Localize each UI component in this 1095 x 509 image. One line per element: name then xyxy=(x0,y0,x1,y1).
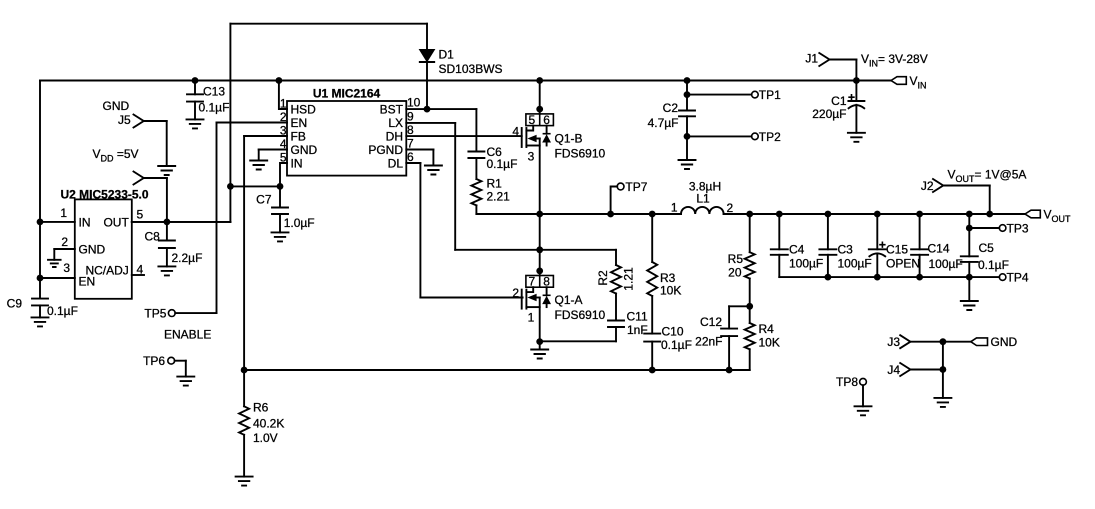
test point TP2 xyxy=(687,130,781,144)
node D1/BST junction xyxy=(424,106,431,113)
label C11 value xyxy=(627,310,648,338)
svg-text:BST: BST xyxy=(380,102,404,116)
node J4 junction xyxy=(940,366,947,373)
label C5 value xyxy=(978,241,1009,272)
svg-text:J3: J3 xyxy=(887,335,900,349)
svg-text:20: 20 xyxy=(728,266,742,280)
node J1/C1 bus junction xyxy=(853,77,860,84)
capacitor C15 (polarized, open) xyxy=(869,214,886,277)
node U1 pin1 bus junction xyxy=(276,77,283,84)
transistor Q1-A xyxy=(512,214,553,342)
svg-text:100µF: 100µF xyxy=(929,257,963,271)
svg-text:J1: J1 xyxy=(805,52,818,66)
label VOUT= 1V@5A xyxy=(948,168,1027,185)
svg-text:1.0V: 1.0V xyxy=(253,431,278,445)
node C12 bus junction xyxy=(726,367,733,374)
svg-text:C9: C9 xyxy=(7,297,23,311)
svg-text:40.2K: 40.2K xyxy=(253,417,284,431)
svg-text:5: 5 xyxy=(528,113,535,127)
svg-text:2: 2 xyxy=(512,286,519,300)
capacitor C12 xyxy=(721,306,750,370)
inductor L1 xyxy=(671,180,734,216)
svg-text:5: 5 xyxy=(137,208,144,222)
svg-text:1: 1 xyxy=(528,311,535,325)
svg-text:GND: GND xyxy=(103,99,130,113)
node C14 bottom junction xyxy=(916,274,923,281)
svg-text:EN: EN xyxy=(291,116,308,130)
resistor R5 xyxy=(745,214,755,306)
svg-text:J4: J4 xyxy=(887,363,900,377)
svg-text:R5: R5 xyxy=(728,252,744,266)
svg-text:D1: D1 xyxy=(439,48,455,62)
svg-text:C10: C10 xyxy=(662,324,684,338)
net tag GND xyxy=(971,335,1018,349)
svg-text:C14: C14 xyxy=(928,242,950,256)
svg-text:TP5: TP5 xyxy=(144,306,166,320)
label VIN= 3V-28V xyxy=(861,52,928,69)
node C2 bus junction xyxy=(684,77,691,84)
svg-text:1: 1 xyxy=(60,206,67,220)
label Q1-A value xyxy=(555,293,606,322)
svg-text:C1: C1 xyxy=(831,94,847,108)
test point TP5 xyxy=(144,123,216,321)
capacitor C7 xyxy=(272,186,289,241)
wire U1 pin2 EN xyxy=(217,122,288,124)
capacitor C14 xyxy=(911,214,928,277)
wire output bus xyxy=(724,213,1025,215)
label C14 value xyxy=(928,242,963,272)
svg-text:R2: R2 xyxy=(596,270,610,286)
svg-text:EN: EN xyxy=(79,275,96,289)
svg-text:OPEN: OPEN xyxy=(886,257,920,271)
node LX/R2 run junction xyxy=(536,246,543,253)
test point TP8 xyxy=(836,375,872,415)
node IN rail junction xyxy=(227,183,234,190)
svg-text:C8: C8 xyxy=(145,230,161,244)
wire 5V vertical rail (U2 OUT to top wire / U1 IN) xyxy=(132,24,231,222)
svg-text:4.7µF: 4.7µF xyxy=(648,116,679,130)
svg-text:6: 6 xyxy=(407,150,414,164)
node R5/R4/C12 junction xyxy=(746,303,753,310)
connector J5 xyxy=(118,113,175,175)
resistor R1 xyxy=(471,179,481,214)
test point TP3 xyxy=(969,221,1029,235)
test point TP1 xyxy=(687,88,781,102)
svg-text:4: 4 xyxy=(512,125,519,139)
node switch node junction xyxy=(536,211,543,218)
node R3 junction xyxy=(649,211,656,218)
wire feedback bus xyxy=(244,369,750,371)
resistor R2 xyxy=(611,250,621,294)
svg-text:8: 8 xyxy=(407,123,414,137)
wire U1 pin4 GND to ground xyxy=(250,150,287,170)
node J3 junction xyxy=(940,338,947,345)
svg-text:IN: IN xyxy=(291,156,303,170)
connector J1 xyxy=(805,52,856,81)
node U2 pin3/rail xyxy=(37,275,44,282)
diode D1 xyxy=(420,24,435,109)
svg-text:R1: R1 xyxy=(487,177,503,191)
capacitor C10 xyxy=(644,296,660,370)
wire U2 pin1 xyxy=(40,221,75,223)
label C9 value xyxy=(7,297,78,319)
wire U1 pin6 DL to Q1-A gate xyxy=(406,163,522,298)
label Q1-B value xyxy=(555,132,606,161)
svg-text:C2: C2 xyxy=(663,101,679,115)
label C2 value xyxy=(648,101,679,130)
node C13/bus junction xyxy=(192,77,199,84)
svg-text:1nF: 1nF xyxy=(627,323,648,337)
svg-text:GND: GND xyxy=(991,335,1018,349)
node C15 bottom junction xyxy=(874,274,881,281)
capacitor C8 xyxy=(158,222,175,276)
svg-text:FB: FB xyxy=(291,129,306,143)
IC U1 MIC2164 xyxy=(280,87,421,176)
svg-text:U1 MIC2164: U1 MIC2164 xyxy=(313,87,381,101)
wire output caps bottom bus xyxy=(779,276,969,278)
svg-text:FDS6910: FDS6910 xyxy=(555,308,606,322)
IC U2 MIC5233-5.0 xyxy=(60,188,149,299)
svg-text:C12: C12 xyxy=(700,315,722,329)
capacitor C3 xyxy=(819,214,836,277)
svg-text:2.21: 2.21 xyxy=(487,190,511,204)
wire left VIN rail to U2 xyxy=(39,81,41,299)
svg-text:7: 7 xyxy=(528,275,535,289)
test point TP4 xyxy=(969,271,1029,285)
transistor Q1-B xyxy=(512,81,553,215)
svg-text:2: 2 xyxy=(61,235,68,249)
svg-text:Q1-A: Q1-A xyxy=(555,293,583,307)
wire U1 pin8 DH to Q1-B gate xyxy=(406,135,521,137)
wire U1 pin10 BST xyxy=(406,108,476,110)
connector J4 xyxy=(887,363,943,377)
wire top 5V-to-BST-diode run xyxy=(230,23,427,25)
node C15 bus junction xyxy=(874,211,881,218)
svg-text:0.1µF: 0.1µF xyxy=(199,101,230,115)
svg-text:C15: C15 xyxy=(886,243,908,257)
svg-text:3: 3 xyxy=(63,261,70,275)
svg-text:0.1µF: 0.1µF xyxy=(661,338,692,352)
svg-text:HSD: HSD xyxy=(291,102,317,116)
capacitor C9 xyxy=(32,299,49,327)
label GND (J5) xyxy=(103,99,130,113)
svg-text:DL: DL xyxy=(388,156,404,170)
net tag VIN xyxy=(891,74,927,91)
svg-text:100µF: 100µF xyxy=(789,257,823,271)
svg-text:J2: J2 xyxy=(921,179,934,193)
wire U1 pin5 IN xyxy=(280,163,287,186)
svg-text:R6: R6 xyxy=(253,401,269,415)
svg-text:1: 1 xyxy=(671,201,678,215)
node C3 bottom junction xyxy=(825,274,832,281)
node Q1-B drain bus junction xyxy=(536,77,543,84)
svg-text:GND: GND xyxy=(291,143,318,157)
svg-text:C13: C13 xyxy=(203,85,225,99)
svg-text:TP7: TP7 xyxy=(625,180,647,194)
node TP1 junction xyxy=(684,91,691,98)
node U2 OUT junction xyxy=(164,219,171,226)
node FB/R6 junction xyxy=(241,367,248,374)
label R4 value xyxy=(759,322,780,350)
node C7 junction xyxy=(277,183,284,190)
label C10 value xyxy=(661,324,692,352)
svg-text:J5: J5 xyxy=(118,113,131,127)
label C6 value xyxy=(487,145,518,171)
label D1 value xyxy=(439,48,503,77)
node TP2 junction xyxy=(684,133,691,140)
net tag VOUT xyxy=(1025,208,1071,225)
svg-text:SD103BWS: SD103BWS xyxy=(439,62,503,76)
svg-text:TP6: TP6 xyxy=(143,354,165,368)
connector VDD jumper xyxy=(134,172,167,222)
wire U1 pin3 FB down to feedback bus xyxy=(244,136,287,370)
label C12 value xyxy=(695,315,722,349)
svg-text:3: 3 xyxy=(528,150,535,164)
node C3 bus junction xyxy=(825,211,832,218)
svg-text:7: 7 xyxy=(407,137,414,151)
svg-text:TP4: TP4 xyxy=(1007,271,1029,285)
capacitor C13 xyxy=(187,81,204,129)
wire IN decoupling run xyxy=(230,185,280,187)
wire switch node xyxy=(476,213,681,215)
svg-text:C7: C7 xyxy=(256,193,272,207)
node C5 bus junction xyxy=(966,211,973,218)
svg-text:LX: LX xyxy=(388,116,403,130)
svg-text:1.0µF: 1.0µF xyxy=(284,216,315,230)
svg-text:OUT: OUT xyxy=(103,215,129,229)
node C14 bus junction xyxy=(916,211,923,218)
svg-text:1.21: 1.21 xyxy=(622,267,636,291)
label C8 value xyxy=(145,230,203,266)
test point TP6 xyxy=(143,354,194,386)
label C3 value xyxy=(838,243,872,271)
svg-text:GND: GND xyxy=(79,242,106,256)
label C7 value xyxy=(256,193,314,231)
node Q1-A source junction xyxy=(536,338,543,345)
resistor R6 xyxy=(236,370,253,486)
label R1 value xyxy=(487,177,511,204)
resistor R3 xyxy=(647,214,657,296)
label R5 value xyxy=(728,252,744,280)
label C13 value xyxy=(199,85,230,115)
svg-text:FDS6910: FDS6910 xyxy=(555,147,606,161)
wire U2 pin3 xyxy=(40,277,75,279)
wire U2 pin2 to ground xyxy=(48,249,75,267)
label ENABLE xyxy=(164,327,211,341)
node TP3 junction xyxy=(966,225,973,232)
capacitor C6 xyxy=(468,109,484,179)
svg-text:C3: C3 xyxy=(838,243,854,257)
node U2 pin1/rail xyxy=(37,219,44,226)
node TP7 junction xyxy=(607,211,614,218)
svg-text:IN: IN xyxy=(79,215,91,229)
connector J2 xyxy=(921,179,990,214)
label C1 value xyxy=(812,94,854,121)
wire U1 pin9 LX xyxy=(406,123,616,250)
svg-text:0.1µF: 0.1µF xyxy=(487,157,518,171)
svg-text:2.2µF: 2.2µF xyxy=(172,251,203,265)
capacitor C2 xyxy=(679,81,696,170)
wire U2 OUT pin5 xyxy=(132,221,231,223)
node R5 junction xyxy=(746,211,753,218)
wire J3/J4 ground drop xyxy=(934,342,951,407)
label R3 value xyxy=(660,271,681,298)
svg-text:10: 10 xyxy=(407,96,421,110)
wire U1 pin1 HSD xyxy=(279,81,287,110)
svg-text:TP8: TP8 xyxy=(836,375,858,389)
node C4 bus junction xyxy=(776,211,783,218)
svg-text:TP3: TP3 xyxy=(1007,221,1029,235)
label C4 value xyxy=(789,243,823,271)
svg-text:ENABLE: ENABLE xyxy=(164,327,211,341)
svg-text:22nF: 22nF xyxy=(695,335,722,349)
capacitor C4 xyxy=(771,214,788,277)
label R2 value (rotated) xyxy=(596,267,636,291)
svg-text:0.1µF: 0.1µF xyxy=(978,258,1009,272)
svg-text:L1: L1 xyxy=(696,192,710,206)
node C10 bus junction xyxy=(649,367,656,374)
svg-text:C5: C5 xyxy=(979,241,995,255)
svg-text:TP2: TP2 xyxy=(759,130,781,144)
svg-text:TP1: TP1 xyxy=(759,88,781,102)
svg-text:0.1µF: 0.1µF xyxy=(47,304,78,318)
svg-text:Q1-B: Q1-B xyxy=(555,132,583,146)
node TP4 junction xyxy=(966,274,973,281)
svg-text:100µF: 100µF xyxy=(838,257,872,271)
svg-text:PGND: PGND xyxy=(368,143,403,157)
svg-text:9: 9 xyxy=(407,110,414,124)
connector J3 xyxy=(887,335,970,349)
svg-text:C4: C4 xyxy=(789,243,805,257)
svg-text:R4: R4 xyxy=(759,322,775,336)
svg-text:C11: C11 xyxy=(627,310,648,324)
ground Q1-A source xyxy=(531,342,548,359)
svg-text:2: 2 xyxy=(727,201,734,215)
wire U1 pin7 PGND to ground xyxy=(406,150,442,175)
svg-text:220µF: 220µF xyxy=(812,107,846,121)
svg-text:DH: DH xyxy=(386,129,403,143)
svg-text:10K: 10K xyxy=(660,284,681,298)
capacitor C1 (polarized) xyxy=(848,81,865,142)
test point TP7 xyxy=(611,180,648,214)
wire U2 pin4 stub xyxy=(132,274,144,276)
node J2 bus junction xyxy=(986,211,993,218)
capacitor C5 xyxy=(961,214,978,310)
label R6 value xyxy=(253,401,284,446)
resistor R4 xyxy=(745,306,755,370)
capacitor C11 xyxy=(540,294,624,342)
svg-text:10K: 10K xyxy=(759,336,780,350)
label C15 value xyxy=(886,243,920,271)
label VDD =5V xyxy=(93,147,139,164)
wire main VIN bus xyxy=(40,80,891,82)
